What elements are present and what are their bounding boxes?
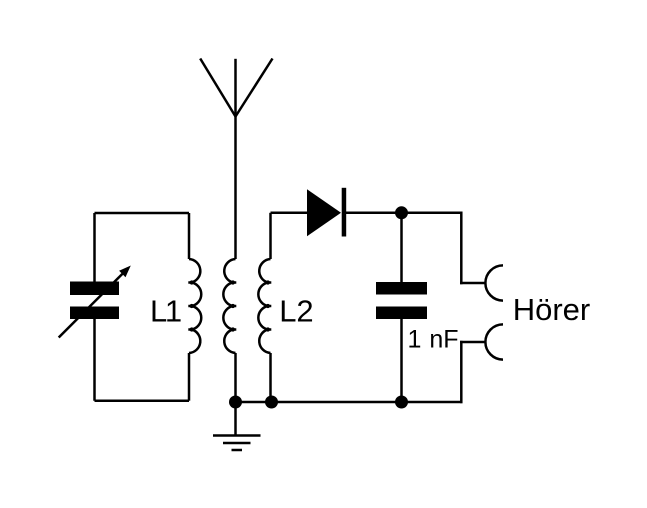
coil cusp nubs (middle) bbox=[231, 280, 237, 331]
wire antenna lead down bbox=[234, 117, 237, 260]
wire left tank loop bottom bbox=[95, 399, 190, 402]
wire L2 top lead bbox=[269, 213, 272, 259]
inductor L2 (bumps left) bbox=[258, 259, 270, 353]
antenna bbox=[200, 59, 272, 117]
svg-text:Hörer: Hörer bbox=[513, 292, 591, 327]
wire left tank loop right upper bbox=[188, 213, 191, 259]
wire capacitor top lead bbox=[400, 213, 403, 282]
variable capacitor C1 arrow bbox=[59, 266, 131, 338]
variable capacitor C1 plates bbox=[70, 282, 119, 320]
svg-text:L2: L2 bbox=[279, 294, 313, 329]
diode D1 bbox=[307, 188, 346, 237]
node junction capacitor bottom bbox=[395, 396, 408, 409]
wire left tank loop left lower bbox=[93, 319, 96, 401]
inductor L1 (bumps right) bbox=[189, 259, 201, 353]
capacitor C2 1nF plates bbox=[376, 282, 427, 319]
svg-text:L1: L1 bbox=[150, 294, 182, 329]
wire top rail right of diode bbox=[346, 212, 463, 215]
wire bottom rail bbox=[236, 401, 463, 404]
wire left tank loop left upper bbox=[93, 213, 96, 282]
wire to upper earpiece bbox=[460, 282, 486, 285]
wire capacitor bottom lead bbox=[400, 319, 403, 402]
wire right branch down to bottom rail bbox=[460, 341, 463, 403]
inductor antenna coupling coil (middle, bumps left) bbox=[223, 259, 235, 353]
earphone upper earpiece arc bbox=[485, 265, 503, 300]
wire antenna lead to ground bus bbox=[234, 353, 237, 402]
earphone lower earpiece arc bbox=[485, 324, 503, 359]
node junction top (diode/capacitor) bbox=[395, 206, 408, 219]
svg-text:1 nF: 1 nF bbox=[408, 326, 459, 354]
wire left tank loop right lower bbox=[188, 353, 191, 401]
node junction L2 bottom bbox=[265, 396, 278, 409]
wire L2 bottom lead bbox=[269, 353, 272, 402]
ground symbol bbox=[213, 402, 261, 450]
wire left tank loop top bbox=[95, 212, 190, 215]
node junction antenna/ground bbox=[229, 396, 242, 409]
wire right branch down from top rail bbox=[460, 212, 463, 285]
wire top rail left of diode bbox=[271, 212, 309, 215]
coil cusp nubs (L1) bbox=[188, 280, 193, 331]
coil cusp nubs (L2) bbox=[266, 280, 272, 331]
wire to lower earpiece bbox=[460, 341, 486, 344]
